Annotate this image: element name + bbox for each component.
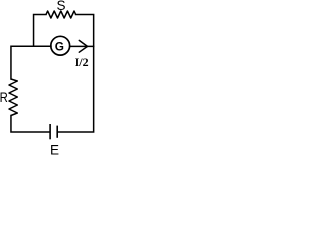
svg-text:S: S: [56, 0, 65, 13]
svg-text:R: R: [0, 90, 8, 105]
svg-text:G: G: [55, 39, 64, 53]
svg-text:E: E: [50, 142, 59, 157]
svg-text:I/2: I/2: [75, 55, 89, 69]
